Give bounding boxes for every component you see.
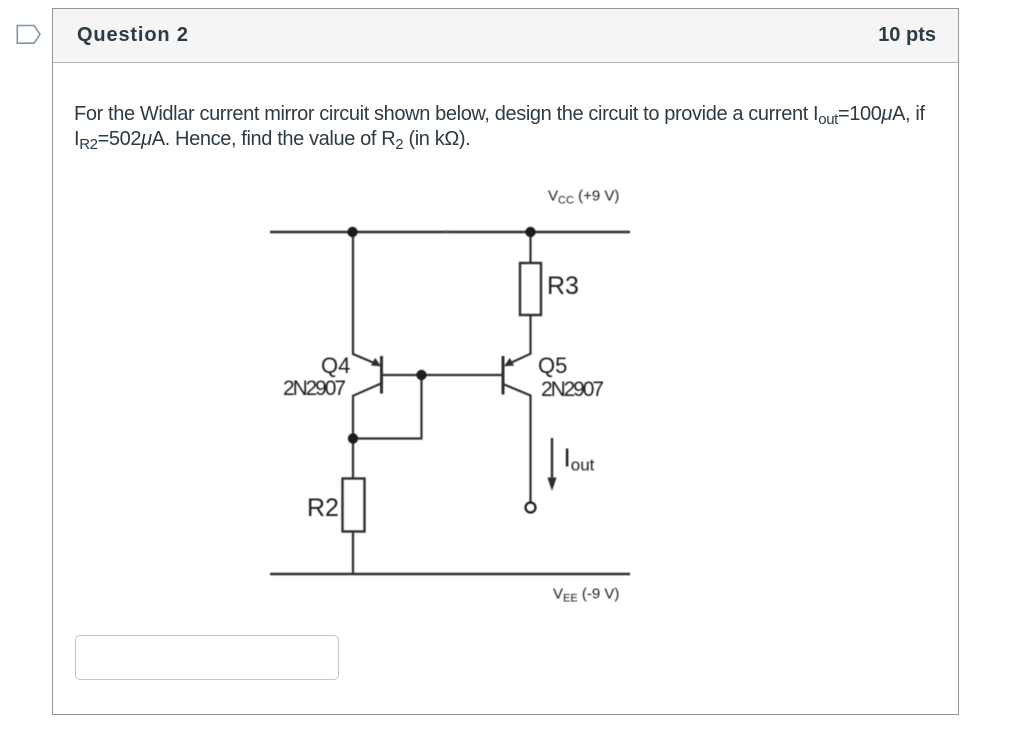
wire R2 bottom (352, 532, 354, 575)
wire R3 top (529, 232, 531, 263)
wire Q4 collector (353, 384, 381, 439)
junction dot right rail (525, 227, 535, 237)
junction dot base (416, 370, 426, 380)
transistor Q4 base bar (380, 356, 383, 394)
wire Q5 emitter (506, 315, 531, 365)
base wire (382, 374, 504, 376)
resistor R3 (520, 263, 541, 315)
junction dot collector R2 (348, 433, 358, 443)
wire R2 top (352, 439, 354, 479)
answer input box (75, 635, 339, 680)
ground/VEE rail (270, 573, 630, 575)
Vcc rail (270, 231, 630, 233)
Q4 emitter arrow (371, 358, 381, 367)
Iout arrow line (551, 438, 553, 480)
output terminal circle (526, 503, 536, 513)
resistor R2 (343, 479, 365, 532)
bookmark flag icon (0, 0, 56, 56)
wire Q4 emitter vertical (353, 232, 380, 365)
transistor Q5 base bar (502, 356, 505, 395)
Q5 emitter arrow (504, 358, 514, 367)
Iout arrowhead (547, 478, 556, 492)
feedback wire (353, 375, 422, 439)
rail speck (446, 230, 448, 232)
wire Q5 collector (503, 384, 531, 502)
junction dot left rail (347, 227, 357, 237)
